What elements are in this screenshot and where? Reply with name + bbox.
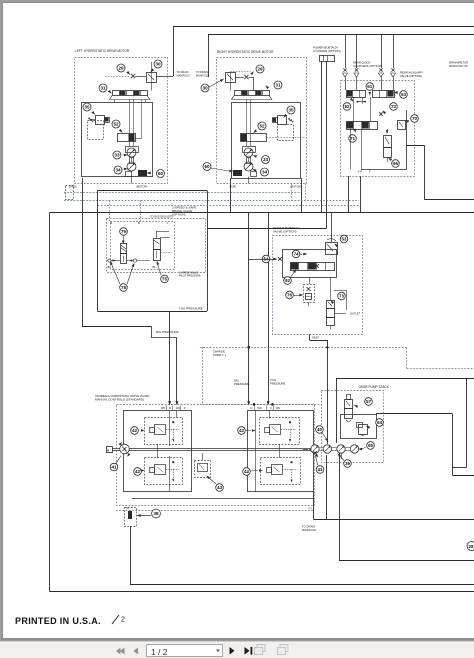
svg-text:SUPPLY 1: SUPPLY 1 (213, 353, 227, 357)
svg-text:MANUAL CONTROLS (STANDARD): MANUAL CONTROLS (STANDARD) (95, 398, 144, 402)
svg-text:41: 41 (111, 465, 117, 470)
svg-text:38: 38 (153, 511, 159, 516)
svg-text:(OPTION): (OPTION) (172, 213, 186, 217)
svg-text:35: 35 (84, 105, 90, 110)
svg-text:MANIFOLD: MANIFOLD (177, 75, 190, 78)
svg-text:74: 74 (293, 252, 299, 257)
svg-text:66: 66 (393, 161, 399, 166)
svg-text:35: 35 (288, 108, 294, 113)
svg-text:52: 52 (259, 124, 265, 129)
svg-text:39: 39 (345, 461, 351, 466)
svg-text:33: 33 (114, 153, 120, 158)
svg-text:75: 75 (162, 277, 168, 282)
svg-text:42: 42 (239, 428, 245, 433)
svg-text:70: 70 (412, 116, 418, 121)
svg-text:62: 62 (344, 104, 350, 109)
svg-text:(MOTOR): (MOTOR) (290, 184, 301, 188)
svg-text:64: 64 (377, 420, 383, 425)
svg-text:TOG PRESSURE: TOG PRESSURE (179, 307, 203, 311)
svg-text:OUTLET: OUTLET (350, 312, 361, 316)
svg-text:WC: WC (276, 407, 280, 410)
svg-text:PRESSURE: PRESSURE (270, 382, 286, 386)
svg-text:76: 76 (287, 293, 293, 298)
svg-text:57: 57 (366, 399, 372, 404)
svg-text:34: 34 (262, 170, 268, 175)
svg-text:2: 2 (121, 617, 125, 624)
svg-text:73: 73 (339, 294, 345, 299)
svg-text:VALVE (OPTION): VALVE (OPTION) (400, 74, 422, 78)
svg-text:LEFT HYDROSTATIC DRIVE MOTOR: LEFT HYDROSTATIC DRIVE MOTOR (75, 49, 130, 53)
svg-text:WD: WD (258, 407, 262, 410)
svg-text:WA: WA (176, 407, 180, 410)
svg-text:CYLINDER (OPTION): CYLINDER (OPTION) (313, 49, 341, 53)
svg-text:MANIFOLD W/: MANIFOLD W/ (449, 64, 468, 68)
svg-text:TO ROD END (OPT): TO ROD END (OPT) (150, 216, 173, 219)
svg-text:D: D (251, 407, 253, 410)
svg-text:INLET: INLET (312, 336, 320, 340)
svg-text:79: 79 (121, 229, 127, 234)
svg-text:42: 42 (135, 469, 141, 474)
svg-text:30: 30 (202, 86, 208, 91)
svg-text:GEAR PUMP STACK: GEAR PUMP STACK (359, 385, 390, 389)
svg-text:60: 60 (158, 171, 164, 176)
svg-text:53: 53 (341, 237, 347, 242)
svg-text:30: 30 (155, 62, 161, 67)
svg-text:61: 61 (367, 84, 373, 89)
svg-text:41: 41 (317, 467, 323, 472)
svg-text:29: 29 (257, 67, 263, 72)
svg-text:B: B (138, 221, 140, 225)
svg-text:28: 28 (469, 544, 474, 549)
svg-text:33: 33 (263, 157, 269, 162)
svg-text:C: C (270, 407, 272, 410)
svg-text:(B): (B) (107, 265, 111, 269)
svg-text:29: 29 (118, 66, 124, 71)
svg-text:PILOT PRESSURE: PILOT PRESSURE (179, 275, 201, 278)
svg-text:(FWD): (FWD) (69, 184, 77, 188)
svg-text:P: P (184, 407, 186, 410)
svg-text:F N: F N (358, 170, 362, 174)
svg-text:RIGHT HYDROSTATIC DRIVE MOTOR: RIGHT HYDROSTATIC DRIVE MOTOR (217, 50, 274, 54)
svg-text:43: 43 (217, 485, 223, 490)
svg-text:(L): (L) (309, 507, 312, 510)
svg-text:72: 72 (391, 104, 397, 109)
svg-text:MANIFOLD: MANIFOLD (196, 75, 209, 78)
svg-text:31: 31 (100, 86, 106, 91)
svg-text:65: 65 (368, 443, 374, 448)
svg-text:31: 31 (275, 83, 281, 88)
svg-text:54: 54 (263, 257, 269, 262)
svg-text:RIG PRESSURE: RIG PRESSURE (156, 330, 179, 334)
svg-text:B: B (169, 407, 171, 410)
svg-text:PRESSURE: PRESSURE (234, 382, 250, 386)
svg-text:VALVE (OPTION): VALVE (OPTION) (273, 230, 297, 234)
svg-text:92: 92 (285, 278, 291, 283)
svg-text:(MOTOR): (MOTOR) (136, 184, 147, 188)
svg-text:C: C (167, 221, 169, 225)
svg-text:M: M (107, 448, 110, 452)
svg-text:40: 40 (317, 427, 323, 432)
svg-text:60: 60 (204, 164, 210, 169)
svg-text:T: T (369, 170, 371, 174)
svg-text:(B): (B) (152, 265, 156, 269)
svg-text:42: 42 (244, 469, 250, 474)
svg-text:PRINTED IN U.S.A.: PRINTED IN U.S.A. (15, 616, 101, 626)
svg-text:COUPLERS (OPTION): COUPLERS (OPTION) (353, 64, 382, 68)
svg-text:78: 78 (121, 285, 127, 290)
svg-text:B: B (111, 221, 113, 225)
svg-text:(FOR): (FOR) (229, 184, 236, 188)
svg-text:42: 42 (132, 428, 138, 433)
svg-text:WD: WD (161, 407, 165, 410)
svg-text:52: 52 (113, 122, 119, 127)
svg-text:34: 34 (115, 168, 121, 173)
svg-text:MANIFOLD: MANIFOLD (302, 528, 316, 532)
svg-text:63: 63 (401, 92, 407, 97)
